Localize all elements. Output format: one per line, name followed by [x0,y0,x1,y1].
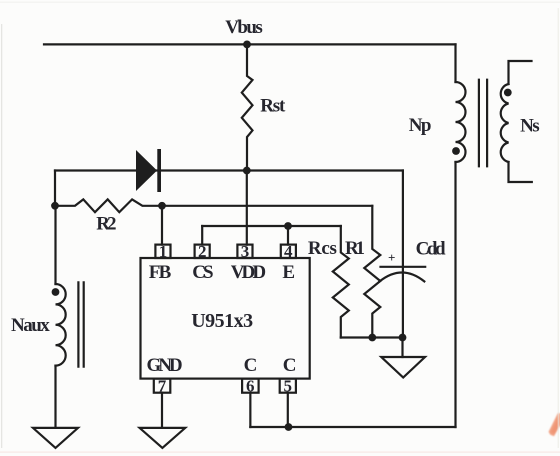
svg-text:Naux: Naux [11,315,50,336]
wire GND stub [161,393,163,428]
node E pin [284,222,292,230]
Naux core lines [78,282,83,366]
transformer core [479,80,487,167]
resistor Rst [242,44,253,170]
inductor Naux [56,284,66,366]
svg-text:E: E [282,262,295,283]
resistor R1 [364,206,380,338]
wire bottom rail [250,426,455,428]
svg-text:Cdd: Cdd [416,238,446,259]
wire Naux vertical [54,206,56,284]
wire junction row [341,336,403,338]
inductor Ns secondary [501,84,509,162]
svg-text:+: + [388,250,395,265]
pin 3 box [237,245,252,258]
capacitor Cdd top plate [381,266,426,268]
svg-text:1: 1 [159,242,168,261]
svg-text:7: 7 [158,376,167,395]
svg-text:3: 3 [241,242,250,261]
svg-text:FB: FB [149,262,172,283]
node R2 right / FB [158,202,166,210]
diode D1 [136,149,161,192]
svg-text:VDD: VDD [231,262,266,283]
decorative: orange logo fragment bottom right [549,413,560,436]
resistor R2 [55,199,372,212]
pin 7 box [154,379,171,393]
wire Vbus top rail [44,43,456,45]
wire pin2 stub [201,226,203,245]
wire Cdd ground stub [401,338,403,358]
wire pin6 stub [249,393,251,427]
svg-text:C: C [244,355,258,376]
pin 1 box [155,245,170,258]
IC U951x3 body [141,258,310,379]
svg-text:U951x3: U951x3 [191,310,253,332]
svg-text:C: C [283,355,297,376]
polarity dot Ns [504,89,512,97]
node R2 left [51,202,59,210]
svg-text:GND: GND [147,355,183,376]
svg-text:Np: Np [409,115,432,136]
ground left [33,428,78,448]
wire CS row [202,225,341,227]
svg-text:Rst: Rst [260,95,286,116]
pin 2 box [195,245,210,258]
svg-text:6: 6 [246,376,255,395]
pin 4 box [281,245,296,258]
capacitor Cdd vertical [402,171,404,338]
node dots [51,41,512,431]
capacitor Cdd curved plate [380,273,425,282]
polarity dot Np [452,147,460,155]
wire pin1 stub [161,206,163,245]
svg-text:Rcs: Rcs [308,238,337,259]
node Rst/diode/VDD [243,167,251,175]
wire pin5 stub [287,393,289,427]
node R1 bottom [368,334,376,342]
svg-text:R2: R2 [96,214,116,235]
node bottom rail / pin5 [285,423,293,431]
svg-text:Ns: Ns [520,115,540,136]
svg-text:R1: R1 [345,238,365,259]
wire Np top lead [454,44,456,82]
inductor Np primary [456,82,466,162]
svg-text:CS: CS [192,262,213,283]
wire pin3 stub [246,171,248,245]
pin 6 box [242,379,259,393]
decorative: faint page edges [558,8,559,448]
svg-text:2: 2 [198,242,207,261]
wire Ns top lead [509,61,532,84]
resistor Rcs [333,226,349,338]
wire left vertical to R2 row [54,171,56,206]
node Vbus/Rst [243,41,251,49]
pin 5 box [280,379,296,393]
ground Cdd [381,357,425,378]
ground GND [140,428,186,448]
polarity dot Naux [52,288,60,296]
svg-text:4: 4 [284,242,293,261]
wire Ns bottom lead [509,162,532,182]
svg-text:5: 5 [284,376,293,395]
wire Naux bottom lead [54,366,56,428]
wire pin4 stub [287,226,289,245]
wire right vertical [454,162,456,427]
pin numbers [158,242,293,396]
wire diode row [55,169,403,171]
node Cdd bottom [399,334,407,342]
svg-text:Vbus: Vbus [225,17,262,38]
